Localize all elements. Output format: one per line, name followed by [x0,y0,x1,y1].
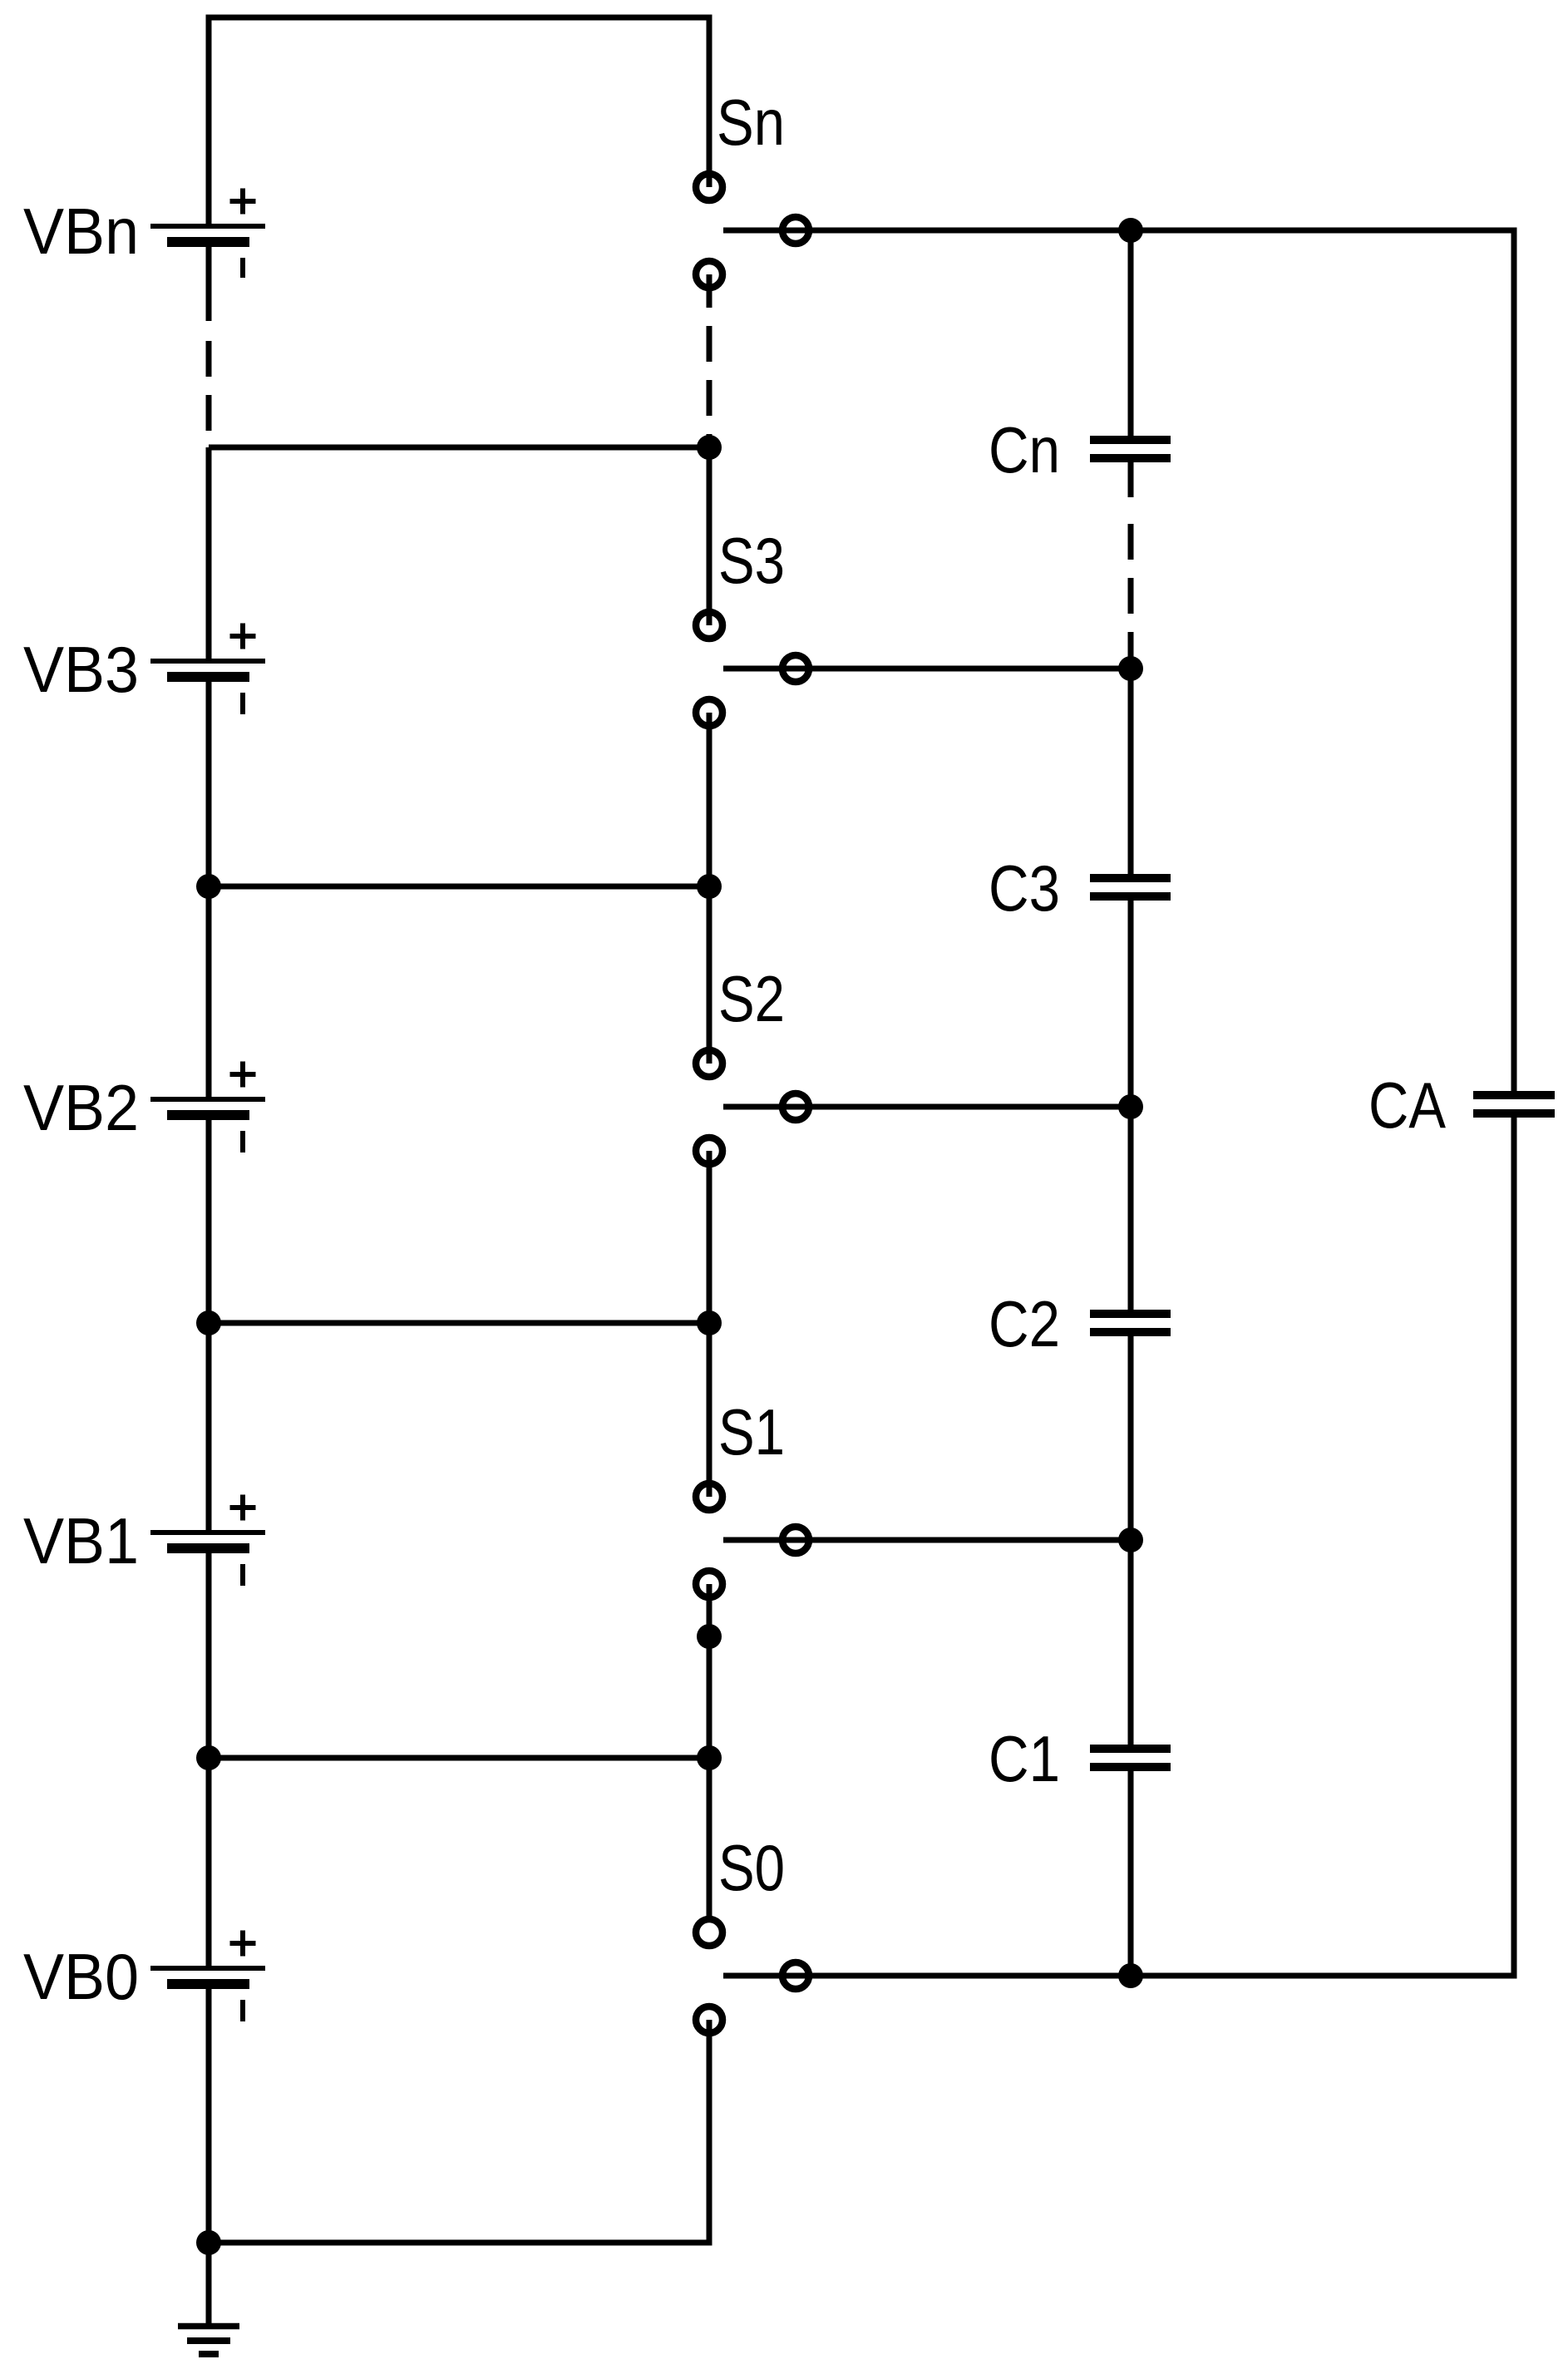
wire node J4 horizontal [209,1755,709,1761]
battery VB0 [150,1931,265,2022]
wire bottom node to ground [206,2243,212,2326]
wire S2 output node to C2 [1128,1107,1134,1314]
wire Sn to node J1 (dashed) [707,326,713,447]
wire VB2 negative to node J3 [206,1115,212,1323]
junction node bottom left [196,2230,221,2255]
svg-text:Sn: Sn [717,86,785,159]
wire Sn output to capacitor rail and CA rail [723,230,1514,1095]
switch Sn [696,174,809,288]
junction node S3 output at capacitor rail [1118,656,1143,681]
wire J3 down to battery VB1 [206,1323,212,1532]
wire S1 lower terminal to node J4 [707,1584,713,1758]
wire node J2 horizontal [209,884,709,890]
junction node on S1 lower wire [697,1624,722,1649]
wire S0 output to capacitor rail and CA rail [723,1113,1514,1976]
wire C1 to S0 output node [1128,1767,1134,1976]
junction node S0 output at capacitor rail [1118,1963,1143,1988]
capacitor C1 [1090,1749,1171,1767]
wire J4 down to battery VB0 [206,1758,212,1968]
switch S1 [696,1483,809,1597]
wire capacitor rail top to Cn [1128,230,1134,440]
switch S0 [696,1919,809,2033]
wire top rail: battery stack + terminal to switch Sn input [209,17,709,226]
battery VB1 [150,1495,265,1587]
wire Sn lower terminal stub [707,274,713,308]
wire J1 down to switch S3 [707,447,713,625]
capacitor C2 [1090,1314,1171,1332]
wire VB3 negative to node J2 [206,677,212,886]
wire J1 down to battery VB3 [206,447,212,661]
junction node J3 (switch column) [697,1310,722,1335]
junction node J2 (left column) [196,874,221,899]
svg-text:VB0: VB0 [23,1940,139,2013]
wire J2 down to battery VB2 [206,886,212,1099]
wire Cn to S3 output node (dashed) [1128,524,1134,669]
junction node J4 (switch column) [697,1745,722,1770]
wire J2 down to switch S2 [707,886,713,1064]
wire S1 output node to C1 [1128,1540,1134,1749]
wire S3 lower terminal to node J2 [707,713,713,886]
svg-text:Cn: Cn [989,413,1060,486]
junction node J4 (left column) [196,1745,221,1770]
svg-text:VB2: VB2 [23,1071,139,1144]
wire VBn to node J1 (dashed continuation) [206,341,212,447]
wire node J1 horizontal [209,445,709,451]
svg-text:VB3: VB3 [23,633,139,706]
svg-text:VBn: VBn [23,195,139,268]
svg-text:S2: S2 [718,962,785,1035]
svg-text:S0: S0 [718,1831,785,1904]
capacitor C3 [1090,878,1171,896]
wire J3 down to switch S1 [707,1323,713,1497]
junction node S1 output at capacitor rail [1118,1528,1143,1552]
battery VB2 [150,1062,265,1153]
ground [178,2327,239,2355]
wire node J3 horizontal [209,1320,709,1326]
junction node J3 (left column) [196,1310,221,1335]
wire capacitor rail S3 node to C3 [1128,669,1134,878]
svg-text:C3: C3 [989,851,1060,925]
capacitor CA [1473,1095,1555,1113]
wire C2 to S1 output node [1128,1332,1134,1540]
junction node J2 (switch column) [697,874,722,899]
switch S3 [696,612,809,726]
wire VBn negative stub (solid part) [206,242,212,321]
svg-text:S3: S3 [718,524,785,597]
wire VB0 negative to bottom node [206,1984,212,2243]
wire S2 lower terminal to node J3 [707,1151,713,1323]
svg-text:S1: S1 [718,1395,785,1468]
capacitor Cn [1090,440,1171,458]
svg-text:C2: C2 [989,1287,1060,1360]
junction node S2 output at capacitor rail [1118,1094,1143,1119]
wire S1 output to capacitor rail [723,1537,1131,1543]
svg-text:CA: CA [1368,1069,1446,1142]
wire C3 to S2 output node [1128,896,1134,1107]
battery VB3 [150,624,265,715]
wire S2 output to capacitor rail [723,1104,1131,1110]
wire S3 output to capacitor rail [723,666,1131,672]
battery VBn [150,189,265,279]
wire J4 down to switch S0 [707,1758,713,1917]
wire S0 lower terminal to bottom rail [209,2020,709,2243]
switch S2 [696,1050,809,1164]
svg-text:VB1: VB1 [23,1504,139,1577]
wire VB1 negative to node J4 [206,1548,212,1758]
junction node J1 (switch column) [697,435,722,460]
svg-text:C1: C1 [989,1722,1060,1795]
wire Cn bottom stub (solid part) [1128,458,1134,497]
junction node at capacitor rail / Sn output [1118,218,1143,243]
